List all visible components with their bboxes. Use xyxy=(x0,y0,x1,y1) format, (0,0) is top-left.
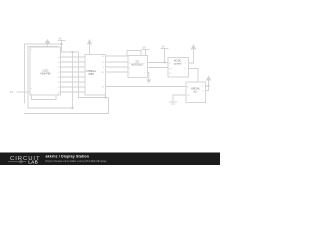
svg-text:1: 1 xyxy=(31,93,32,95)
svg-text:https://www.circuitlab.com/c/h: https://www.circuitlab.com/c/hz48tr/disp… xyxy=(46,159,108,163)
svg-text:D6: D6 xyxy=(58,87,60,89)
svg-text:D5: D5 xyxy=(58,82,60,84)
svg-text:5V: 5V xyxy=(59,37,62,41)
IC U2 microcontroller box xyxy=(85,55,106,96)
wire U1 bottom stub loop xyxy=(32,95,57,100)
svg-text:5V: 5V xyxy=(162,45,165,49)
IC U5 aux box xyxy=(186,82,206,103)
svg-text:B: B xyxy=(129,67,130,69)
node 5V supply bar T2 on U3 xyxy=(142,50,149,56)
svg-text:D3: D3 xyxy=(58,72,60,74)
wire U4 out pin 1 to supply xyxy=(189,49,194,63)
wire U3 out pin 3 to gnd flag xyxy=(148,73,149,80)
wire U5 right pin 2 xyxy=(206,86,209,91)
wire U2 SPI pin 1 xyxy=(106,51,142,57)
wire U1 pin D7 xyxy=(61,91,86,93)
wire U1 pin D1 xyxy=(61,61,86,63)
ground flag arrow under U3 xyxy=(146,80,151,84)
wire U1 pin D4 xyxy=(61,76,86,78)
wire U3 out pin 2 xyxy=(148,67,169,69)
svg-text:D1: D1 xyxy=(58,62,60,64)
wire U1 pin D2 xyxy=(61,66,86,68)
wire U2 SPI pin 4 xyxy=(106,71,129,73)
wire bottom loop GND run xyxy=(25,98,109,114)
svg-text:E: E xyxy=(31,88,32,90)
wire U1 left pin RS xyxy=(17,91,30,93)
IC U1 LCD module box xyxy=(30,47,61,95)
wire bus vertical V1 xyxy=(72,52,74,108)
svg-text:D2: D2 xyxy=(58,67,60,69)
power flag +5V on U1 xyxy=(46,40,50,47)
svg-text:5V: 5V xyxy=(10,90,13,94)
wire 5V drop rail xyxy=(62,51,79,53)
wire top rail 1 xyxy=(25,44,62,103)
node junction T3 on wire xyxy=(164,62,166,64)
svg-text:F: F xyxy=(185,68,186,70)
IC U3 port expander box xyxy=(128,56,148,78)
node junction at 5V T-stub xyxy=(61,43,63,45)
wire bottom loop level 3 xyxy=(28,107,73,109)
svg-text:16: 16 xyxy=(58,93,60,95)
node 5V supply bar T1 xyxy=(58,41,65,53)
svg-text:D0: D0 xyxy=(58,57,60,59)
node junction U5 right xyxy=(208,85,210,87)
wire GND net long run xyxy=(106,86,187,88)
svg-text:HD44780: HD44780 xyxy=(40,73,51,76)
ground symbol G1 xyxy=(170,102,177,104)
power flag +5V on U2 xyxy=(88,40,92,55)
wire U1 pin D0 xyxy=(61,56,86,58)
svg-text:5V: 5V xyxy=(143,46,146,50)
wire bottom loop level 2 xyxy=(105,95,107,98)
power flag +5V right of U5 xyxy=(207,76,211,80)
svg-text:2: 2 xyxy=(144,67,145,69)
node 5V supply bar T3 xyxy=(161,49,168,63)
footer bar xyxy=(0,153,220,166)
tiny labels xyxy=(10,37,165,95)
node junction V1 bottom xyxy=(72,107,74,109)
component name texts xyxy=(40,60,200,94)
wire U2 SPI pin 3 xyxy=(106,66,129,68)
CircuitLab logo xyxy=(8,156,41,165)
svg-text:MCP23S17: MCP23S17 xyxy=(131,64,144,67)
svg-text:328P: 328P xyxy=(88,73,94,76)
wire U1 pin D3 xyxy=(61,71,86,73)
pin number labels xyxy=(31,49,205,96)
wire U1 pin D6 xyxy=(61,86,86,88)
node junction U2 bottom pin xyxy=(105,97,107,99)
svg-text:convert: convert xyxy=(174,63,182,66)
svg-text:D4: D4 xyxy=(58,77,60,79)
svg-text:1: 1 xyxy=(144,62,145,64)
svg-text:CS: CS xyxy=(102,56,104,58)
svg-text:akkrhz / Display Station: akkrhz / Display Station xyxy=(46,155,90,159)
svg-text:LAB: LAB xyxy=(28,160,38,165)
power flag +5V right of U4 xyxy=(191,45,195,49)
wire U4 out pin 2 to U5 xyxy=(189,69,199,83)
wire bus vertical V2 xyxy=(78,52,80,98)
wire U5 right pin 1 to supply xyxy=(206,80,209,86)
wire top rail 2 xyxy=(28,47,58,109)
wire U2 SPI pin 2 xyxy=(106,61,129,63)
junction dots xyxy=(61,43,210,109)
IC U4 driver box xyxy=(168,58,189,78)
wire U1 pin D5 xyxy=(61,81,86,83)
wire U3 out pin 1 xyxy=(148,62,169,64)
wire U5 left pin 2 to ground xyxy=(173,95,186,102)
svg-text:3: 3 xyxy=(144,72,145,74)
svg-text:01+: 01+ xyxy=(193,91,198,94)
node junction V1 top xyxy=(72,51,74,53)
